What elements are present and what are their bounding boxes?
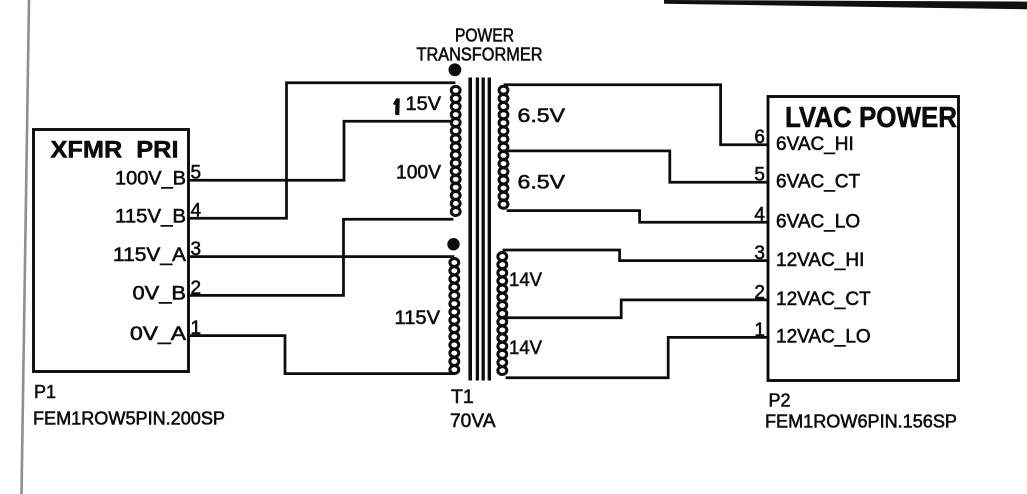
- svg-text:POWER: POWER: [455, 26, 514, 46]
- svg-text:P2: P2: [769, 391, 791, 411]
- wire secondary lower winding bottom to pin1 12VAC_LO: [507, 337, 768, 377]
- wire pin5 100V_B to 100V tap: [189, 121, 453, 180]
- svg-text:XFMR PRI: XFMR PRI: [51, 137, 179, 164]
- value label 115V (top primary), damaged first digit: [393, 98, 400, 115]
- svg-text:115V: 115V: [395, 308, 441, 329]
- svg-text:5: 5: [754, 165, 765, 186]
- svg-text:P1: P1: [34, 382, 56, 402]
- svg-text:15V: 15V: [406, 94, 442, 115]
- wire pin2 0V_B to primary top winding bottom: [189, 219, 453, 295]
- svg-text:14V: 14V: [509, 269, 542, 291]
- svg-text:12VAC_LO: 12VAC_LO: [776, 327, 871, 348]
- svg-text:6.5V: 6.5V: [518, 105, 566, 127]
- core: [470, 78, 489, 381]
- svg-text:1: 1: [754, 320, 765, 341]
- wire secondary top to pin6 6VAC_HI: [505, 85, 768, 145]
- scan artifact: top black bar (decor): [664, 0, 1027, 9]
- svg-text:12VAC_HI: 12VAC_HI: [776, 250, 864, 271]
- svg-text:TRANSFORMER: TRANSFORMER: [417, 44, 543, 64]
- svg-text:0V_B: 0V_B: [133, 284, 187, 305]
- secondary lower winding (14V+14V): [498, 253, 507, 375]
- connector P2 box (LVAC POWER): [768, 97, 959, 381]
- wire secondary top winding bottom to pin4 6VAC_LO: [508, 211, 768, 223]
- wire pin1 0V_A to primary lower winding bottom: [189, 336, 453, 374]
- connector P1 box (XFMR PRI): [34, 130, 189, 372]
- svg-text:14V: 14V: [509, 337, 542, 359]
- svg-text:70VA: 70VA: [450, 410, 496, 432]
- svg-text:100V: 100V: [396, 162, 441, 183]
- polarity dot primary top: [449, 63, 462, 76]
- scan artifact: page edge line (decor): [22, 0, 30, 494]
- svg-text:T1: T1: [451, 386, 474, 408]
- svg-text:6VAC_LO: 6VAC_LO: [776, 212, 860, 233]
- svg-text:100V_B: 100V_B: [115, 169, 186, 190]
- svg-text:115V_A: 115V_A: [113, 245, 186, 266]
- svg-text:4: 4: [754, 205, 765, 226]
- svg-text:6VAC_CT: 6VAC_CT: [776, 171, 861, 192]
- svg-text:6VAC_HI: 6VAC_HI: [776, 134, 854, 155]
- primary lower winding (115V): [450, 259, 459, 374]
- wire 14V tap to pin2 12VAC_CT: [507, 300, 768, 318]
- svg-text:6.5V: 6.5V: [518, 172, 566, 194]
- svg-text:FEM1ROW6PIN.156SP: FEM1ROW6PIN.156SP: [765, 412, 957, 432]
- primary top winding (115V/100V): [451, 86, 460, 215]
- wire secondary lower winding top to pin3 12VAC_HI: [504, 250, 768, 261]
- svg-text:6: 6: [754, 127, 765, 148]
- svg-text:0V_A: 0V_A: [130, 324, 186, 345]
- polarity dot primary lower: [447, 238, 459, 250]
- wire pin4 115V_B to primary top: [189, 83, 455, 218]
- svg-text:12VAC_CT: 12VAC_CT: [776, 289, 871, 310]
- secondary top winding (6.5V+6.5V): [499, 86, 508, 208]
- wire pin3 115V_A to primary lower winding top: [189, 255, 454, 258]
- svg-text:3: 3: [754, 243, 765, 264]
- wire 6.5V tap to pin5 6VAC_CT: [508, 151, 768, 182]
- svg-text:2: 2: [754, 282, 765, 303]
- svg-text:115V_B: 115V_B: [115, 207, 186, 228]
- svg-text:LVAC POWER: LVAC POWER: [785, 102, 957, 134]
- svg-text:FEM1ROW5PIN.200SP: FEM1ROW5PIN.200SP: [33, 409, 225, 429]
